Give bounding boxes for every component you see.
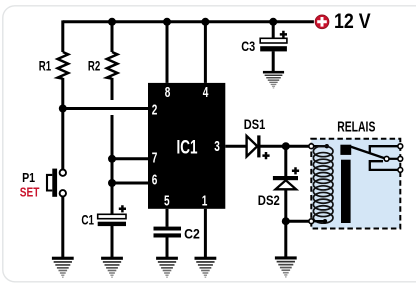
wire: C2 bottom to ground [166, 237, 169, 257]
wire: R2 column to C1 (through pin7/pin6 taps) [111, 115, 114, 215]
ground: pin 1 [195, 257, 217, 278]
relay coil terminal top [309, 144, 314, 149]
node: rail / pin 4 junction [201, 18, 209, 26]
wire: pin 8 to rail [166, 22, 169, 83]
wire: DS1 cathode to relay coil [260, 145, 311, 148]
svg-text:P1: P1 [22, 170, 35, 185]
wire: R1 bottom to P1 top [61, 78, 64, 170]
relay NO fixed contact [370, 161, 401, 170]
wire: pin 4 to rail [204, 22, 207, 83]
relay coil [313, 144, 333, 223]
svg-text:RELAIS: RELAIS [337, 120, 375, 136]
relay contact terminal common [398, 156, 403, 161]
wire: +12V top rail [63, 20, 314, 23]
svg-text:C1: C1 [81, 212, 94, 227]
node: rail / C3 junction [269, 18, 277, 26]
svg-text:C2: C2 [184, 226, 200, 242]
relay box [311, 139, 400, 229]
ground: C1 [101, 257, 123, 278]
wire: R1 top segment [61, 20, 64, 52]
resistor R2 [107, 52, 118, 79]
wire: pin 6 line [112, 182, 148, 185]
svg-text:C3: C3 [241, 39, 255, 54]
svg-text:DS1: DS1 [244, 117, 266, 132]
node: DS1 / DS2 / relay junction [282, 142, 290, 150]
wire: R2 bottom (breaks at pin2 crossover) [111, 78, 114, 100]
ground: C3 [263, 71, 284, 89]
node: pin 7 junction [108, 155, 116, 163]
wire: rail to C3 [272, 22, 275, 39]
svg-text:6: 6 [152, 173, 158, 189]
wire: pin 2 line [63, 107, 148, 110]
node: R1 / pin 2 junction [59, 105, 67, 113]
svg-text:7: 7 [152, 151, 158, 167]
relay common contact pivot [384, 156, 389, 161]
svg-text:5: 5 [164, 193, 170, 209]
capacitor C2 [154, 227, 182, 238]
wire: DS2 anode to ground [284, 189, 287, 257]
wire: pin 5 to C2 [166, 209, 169, 227]
svg-text:8: 8 [165, 85, 171, 101]
wire: C3 to ground [272, 51, 275, 71]
IC1 555 timer body [148, 83, 225, 209]
svg-text:12 V: 12 V [334, 10, 371, 33]
relay contact terminal NO [398, 168, 403, 173]
wire: pin 7 line [112, 157, 148, 160]
relay coil terminal bottom [309, 219, 314, 224]
diode DS2 [273, 167, 299, 189]
pushbutton P1 [47, 169, 66, 197]
ground: C2 [156, 257, 178, 278]
svg-text:4: 4 [203, 85, 209, 101]
resistor R1 [58, 52, 69, 79]
wire: C1 bottom to ground [111, 226, 114, 258]
svg-text:R2: R2 [88, 59, 101, 74]
diode DS1 [247, 135, 270, 159]
node: rail / R2 junction [108, 18, 116, 26]
wire: pin 1 to ground [204, 209, 207, 258]
relay core bar [340, 145, 351, 155]
wire: R2 top segment [111, 20, 114, 52]
wire: relay coil return [286, 220, 311, 223]
svg-text:2: 2 [152, 103, 158, 119]
+12V supply terminal [315, 15, 329, 29]
ground: P1 [52, 257, 74, 278]
svg-text:1: 1 [202, 193, 208, 209]
wire: pin 3 to DS1 anode [225, 145, 248, 148]
svg-text:SET: SET [20, 184, 40, 199]
wire: DS2 cathode column [284, 146, 287, 176]
relay armature (common contact) [351, 147, 401, 159]
node: DS2 / relay return junction [282, 217, 290, 225]
svg-text:DS2: DS2 [258, 193, 280, 209]
svg-text:3: 3 [214, 139, 220, 155]
capacitor C3 (electrolytic) [260, 31, 287, 52]
node: rail / pin 8 junction [163, 18, 171, 26]
ground: DS2 / relay [275, 256, 297, 277]
node: pin 6 junction [108, 179, 116, 187]
svg-text:IC1: IC1 [177, 137, 198, 159]
relay NC fixed contact [370, 146, 401, 153]
relay contact terminal NC [398, 144, 403, 149]
capacitor C1 (electrolytic) [98, 205, 126, 226]
wire: P1 bottom to ground [61, 196, 64, 257]
svg-text:R1: R1 [39, 59, 52, 74]
